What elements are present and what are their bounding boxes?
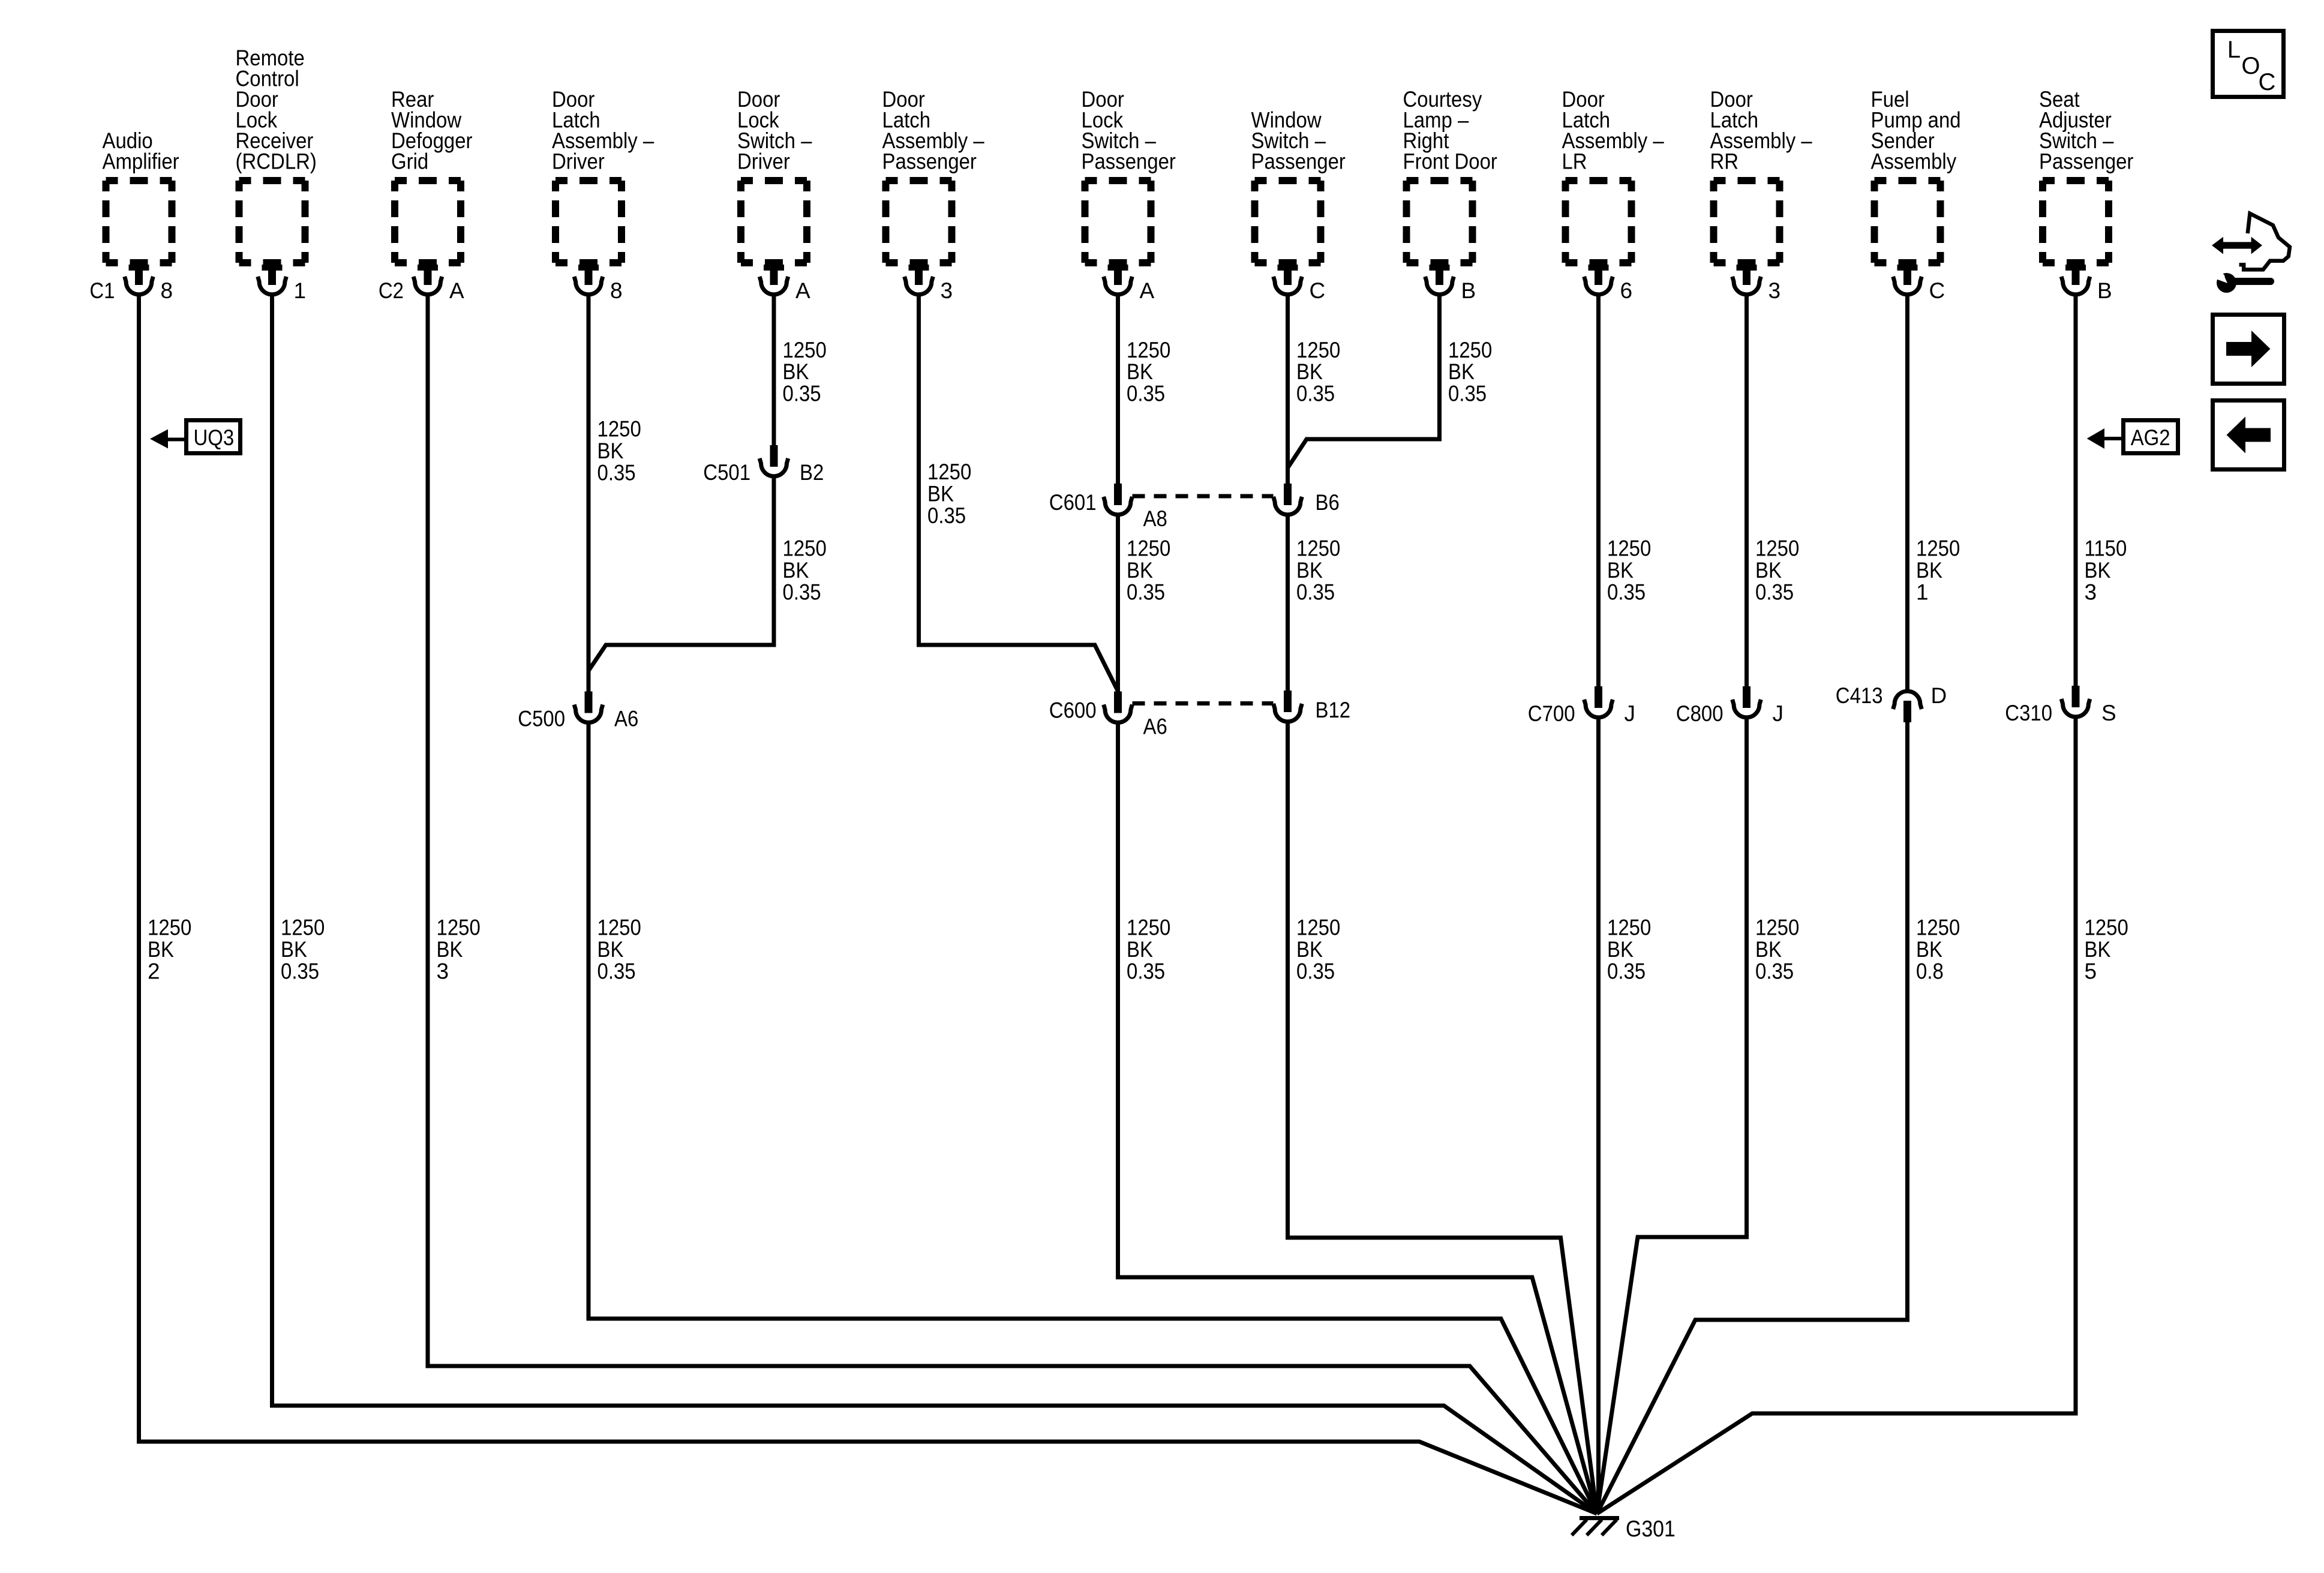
wire audio amplifier to G301 (col1): [139, 295, 1598, 1514]
connector pin C1 8 of Audio Amplifier: [89, 265, 173, 303]
connector pin 3 of Door Latch Assembly – RR: [1733, 265, 1780, 303]
svg-text:C800: C800: [1676, 701, 1724, 726]
component Seat Adjuster Switch – Passenger: [2039, 87, 2133, 263]
svg-text:0.35: 0.35: [1127, 959, 1165, 984]
svg-text:BK: BK: [597, 937, 624, 962]
wire label 1250 BK 0.8 (col12 lower): [1916, 915, 1960, 984]
svg-text:0.35: 0.35: [1607, 580, 1646, 605]
connector B6: [1274, 484, 1340, 515]
wire label 1250 BK 0.35 (col7 upper): [1127, 338, 1170, 406]
svg-text:1250: 1250: [597, 417, 641, 442]
svg-text:1250: 1250: [783, 536, 827, 561]
svg-text:0.35: 0.35: [1296, 580, 1335, 605]
svg-text:BK: BK: [1607, 558, 1634, 583]
LOC legend box: [2213, 31, 2284, 97]
svg-text:BK: BK: [2085, 558, 2111, 583]
svg-text:BK: BK: [1296, 937, 1323, 962]
svg-text:BK: BK: [927, 482, 954, 506]
svg-text:A: A: [1140, 278, 1155, 303]
wire label 1250 BK 0.35 (col5 upper): [783, 338, 827, 406]
svg-text:0.35: 0.35: [1127, 382, 1165, 406]
wire window switch passenger to B6 (col8 upper): [1286, 295, 1290, 485]
wire door latch passenger to C600 join (col6): [919, 295, 1118, 694]
wire label 1250 BK 0.35 (col8 lower): [1296, 915, 1340, 984]
svg-text:BK: BK: [1755, 558, 1782, 583]
connector pin 3 of Door Latch Assembly – Passenger: [905, 265, 953, 303]
wire label 1250 BK 0.35 (col8 upper): [1296, 338, 1340, 406]
svg-text:3: 3: [2085, 580, 2097, 605]
svg-text:C1: C1: [89, 278, 115, 303]
component Fuel Pump and Sender Assembly: [1871, 87, 1961, 263]
svg-text:0.35: 0.35: [281, 959, 319, 984]
svg-text:BK: BK: [1127, 937, 1153, 962]
svg-text:0.35: 0.35: [1607, 959, 1646, 984]
svg-text:0.35: 0.35: [597, 461, 636, 485]
wire label 1250 BK 0.35 (col6): [927, 460, 971, 528]
svg-text:0.35: 0.35: [597, 959, 636, 984]
svg-text:1250: 1250: [281, 915, 325, 940]
svg-text:L: L: [2227, 37, 2241, 63]
svg-text:O: O: [2241, 53, 2260, 79]
svg-text:A8: A8: [1143, 506, 1167, 531]
wire label 1250 BK 0.35 (col7 lower): [1127, 915, 1170, 984]
svg-text:3: 3: [941, 278, 953, 303]
svg-text:C310: C310: [2005, 701, 2052, 725]
svg-text:J: J: [1773, 701, 1784, 726]
component Remote Control Door Lock Receiver (RCDLR): [236, 46, 317, 263]
svg-text:0.35: 0.35: [1755, 580, 1794, 605]
svg-text:0.35: 0.35: [783, 382, 821, 406]
svg-text:BK: BK: [1127, 558, 1153, 583]
svg-text:C2: C2: [379, 278, 404, 303]
svg-text:1: 1: [1916, 580, 1929, 605]
svg-text:B: B: [1461, 278, 1476, 303]
svg-text:0.35: 0.35: [1755, 959, 1794, 984]
wire label 1250 BK 0.35 (col8 mid): [1296, 536, 1340, 605]
svg-text:Driver: Driver: [737, 149, 790, 174]
wire courtesy lamp to col8 join (col9): [1288, 295, 1440, 468]
connector pin C of Window Switch – Passenger: [1274, 265, 1326, 303]
wire label 1250 BK 0.35 (col10 lower): [1607, 915, 1651, 984]
svg-text:LR: LR: [1562, 149, 1587, 174]
svg-text:BK: BK: [1916, 558, 1942, 583]
connector pin B of Courtesy Lamp – Right Front Door: [1425, 265, 1476, 303]
connector C601 A8: [1049, 484, 1167, 531]
svg-text:B12: B12: [1316, 698, 1351, 722]
wire door lock switch passenger to C601 (col7 upper): [1116, 295, 1120, 485]
connector C310 S: [2005, 686, 2116, 725]
svg-text:C: C: [2259, 69, 2276, 95]
svg-text:1250: 1250: [1607, 536, 1651, 561]
svg-text:2: 2: [148, 959, 160, 984]
connector B12: [1274, 691, 1350, 722]
svg-text:Assembly: Assembly: [1871, 149, 1957, 174]
svg-text:AG2: AG2: [2131, 425, 2170, 450]
svg-text:A6: A6: [614, 707, 638, 731]
svg-text:BK: BK: [148, 937, 174, 962]
svg-text:BK: BK: [1607, 937, 1634, 962]
svg-text:8: 8: [610, 278, 623, 303]
connector C700 J: [1528, 686, 1635, 726]
svg-text:Passenger: Passenger: [1082, 149, 1176, 174]
component Door Lock Switch – Passenger: [1082, 87, 1176, 263]
dashed link C601 A8 to B6: [1133, 494, 1274, 499]
svg-text:A6: A6: [1143, 715, 1167, 739]
svg-text:B2: B2: [800, 460, 824, 485]
wire label 1250 BK 1 (col12 mid): [1916, 536, 1960, 605]
svg-text:1250: 1250: [1755, 915, 1799, 940]
svg-text:1250: 1250: [1755, 536, 1799, 561]
wire label 1250 BK 0.35 (col2 lower): [281, 915, 325, 984]
svg-text:BK: BK: [1296, 359, 1323, 384]
svg-text:1250: 1250: [1916, 536, 1960, 561]
svg-text:5: 5: [2085, 959, 2097, 984]
svg-text:B6: B6: [1316, 490, 1340, 515]
connector pin 6 of Door Latch Assembly – LR: [1584, 265, 1632, 303]
wire C500 to G301 (col4 lower): [588, 722, 1597, 1514]
svg-text:B: B: [2097, 278, 2112, 303]
svg-text:1250: 1250: [1127, 536, 1170, 561]
svg-text:C700: C700: [1528, 701, 1575, 726]
connector pin 1 of Remote Control Door Lock Receiver (RCDLR): [258, 265, 306, 303]
svg-text:UQ3: UQ3: [194, 425, 235, 450]
wire B6 to B12 (col8 mid): [1286, 515, 1290, 692]
wire RCDLR to G301 (col2): [272, 295, 1598, 1514]
component Courtesy Lamp – Right Front Door: [1403, 87, 1497, 263]
wire C310 to G301 (col13 lower): [1597, 717, 2076, 1514]
svg-text:Driver: Driver: [552, 149, 605, 174]
wire B12 to G301 (col8 lower): [1288, 722, 1598, 1514]
wire label 1250 BK 0.35 (col5 below C501): [783, 536, 827, 605]
connector pin C2 A of Rear Window Defogger Grid: [379, 265, 464, 303]
wire C501 to C500 join (col5 lower): [588, 476, 774, 694]
wire label 1250 BK 0.35 (col7 mid): [1127, 536, 1170, 605]
svg-text:Passenger: Passenger: [2039, 149, 2133, 174]
svg-text:1250: 1250: [437, 915, 481, 940]
svg-text:C: C: [1929, 278, 1945, 303]
svg-text:G301: G301: [1626, 1517, 1676, 1542]
svg-text:3: 3: [1768, 278, 1781, 303]
svg-text:BK: BK: [597, 439, 624, 463]
svg-text:BK: BK: [1448, 359, 1475, 384]
svg-text:1250: 1250: [1448, 338, 1492, 362]
svg-text:S: S: [2101, 701, 2116, 725]
wire label 1250 BK 3 (col3 lower): [437, 915, 481, 984]
component Door Latch Assembly – Driver: [552, 87, 654, 263]
svg-text:A: A: [449, 278, 464, 303]
svg-text:1250: 1250: [1127, 338, 1170, 362]
component Window Switch – Passenger: [1251, 108, 1346, 263]
svg-text:BK: BK: [437, 937, 463, 962]
svg-text:1250: 1250: [1916, 915, 1960, 940]
wire door latch driver to C500 (col4 upper): [587, 295, 591, 692]
connector pin 8 of Door Latch Assembly – Driver: [574, 265, 622, 303]
svg-text:C600: C600: [1049, 698, 1097, 723]
connector pin A of Door Lock Switch – Driver: [759, 265, 810, 303]
svg-text:BK: BK: [281, 937, 307, 962]
svg-text:J: J: [1625, 701, 1636, 726]
svg-text:0.35: 0.35: [1296, 959, 1335, 984]
connector C600 A6: [1049, 692, 1167, 739]
svg-text:1150: 1150: [2085, 536, 2127, 561]
svg-text:1: 1: [294, 278, 307, 303]
svg-text:BK: BK: [783, 558, 809, 583]
svg-text:1250: 1250: [2085, 915, 2128, 940]
wire label 1250 BK 0.35 (col9 upper): [1448, 338, 1492, 406]
svg-text:A: A: [795, 278, 810, 303]
svg-text:BK: BK: [1127, 359, 1153, 384]
svg-text:BK: BK: [783, 359, 809, 384]
svg-text:1250: 1250: [1607, 915, 1651, 940]
component Door Latch Assembly – Passenger: [882, 87, 985, 263]
wire label 1250 BK 0.35 (col4 lower): [597, 915, 641, 984]
component Rear Window Defogger Grid: [391, 87, 473, 263]
svg-text:C501: C501: [703, 460, 750, 485]
wire label 1250 BK 0.35 (col11 mid): [1755, 536, 1799, 605]
wire label 1150 BK 3 (col13 mid): [2085, 536, 2127, 605]
svg-text:1250: 1250: [1296, 915, 1340, 940]
svg-text:1250: 1250: [597, 915, 641, 940]
option arrow UQ3: [150, 421, 241, 454]
svg-text:C: C: [1310, 278, 1326, 303]
wire C413 to G301 (col12 lower): [1597, 720, 1908, 1514]
svg-text:6: 6: [1620, 278, 1633, 303]
svg-text:Amplifier: Amplifier: [103, 149, 179, 174]
wire seat adjuster switch to C310 (col13 upper): [2074, 295, 2078, 687]
svg-text:C500: C500: [518, 707, 565, 731]
connector C501 B2: [703, 445, 824, 485]
wire door latch LR to C700 (col10 upper): [1596, 295, 1601, 688]
component Door Lock Switch – Driver: [737, 87, 812, 263]
svg-text:Front Door: Front Door: [1403, 149, 1497, 174]
wire fuel pump to C413 (col12 upper): [1905, 295, 1909, 691]
option arrow AG2: [2087, 421, 2178, 454]
wire C700 to G301 (col10 lower): [1596, 718, 1601, 1514]
connector pin B of Seat Adjuster Switch – Passenger: [2061, 265, 2112, 303]
svg-text:8: 8: [161, 278, 173, 303]
svg-text:0.35: 0.35: [1127, 580, 1165, 605]
svg-text:Passenger: Passenger: [1251, 149, 1346, 174]
svg-text:C413: C413: [1836, 683, 1883, 708]
wire C601 to C600 (col7 mid): [1116, 515, 1120, 692]
wire label 1250 BK 2 (col1 lower): [148, 915, 191, 984]
svg-text:1250: 1250: [927, 460, 971, 484]
svg-text:1250: 1250: [148, 915, 191, 940]
component Door Latch Assembly – LR: [1562, 87, 1665, 263]
svg-text:D: D: [1931, 683, 1947, 708]
svg-text:BK: BK: [2085, 937, 2111, 962]
wire defogger grid to G301 (col3): [428, 295, 1597, 1514]
svg-text:1250: 1250: [1127, 915, 1170, 940]
wire label 1250 BK 0.35 (col10 mid): [1607, 536, 1651, 605]
legend arrow left box: [2213, 401, 2284, 470]
component Door Latch Assembly – RR: [1710, 87, 1813, 263]
wire door latch RR to C800 (col11 upper): [1744, 295, 1749, 688]
svg-text:1250: 1250: [1296, 536, 1340, 561]
svg-text:1250: 1250: [1296, 338, 1340, 362]
wire label 1250 BK 0.35 (col4): [597, 417, 641, 485]
wire label 1250 BK 0.35 (col11 lower): [1755, 915, 1799, 984]
svg-text:0.35: 0.35: [783, 580, 821, 605]
svg-text:C601: C601: [1049, 490, 1097, 515]
svg-text:0.35: 0.35: [1296, 382, 1335, 406]
connector C800 J: [1676, 686, 1783, 726]
ground G301: [1572, 1517, 1676, 1542]
connector pin C of Fuel Pump and Sender Assembly: [1893, 265, 1945, 303]
power flow / diagnostic icon (vehicle outline with double arrow and wrench): [2212, 214, 2290, 293]
svg-text:0.8: 0.8: [1916, 959, 1944, 984]
wire C800 to G301 (col11 lower): [1597, 718, 1747, 1514]
wire door lock switch driver to C501 (col5 upper): [772, 295, 776, 448]
svg-text:1250: 1250: [783, 338, 827, 362]
component Audio Amplifier: [103, 128, 179, 263]
connector pin A of Door Lock Switch – Passenger: [1104, 265, 1155, 303]
svg-text:0.35: 0.35: [927, 503, 966, 528]
svg-text:RR: RR: [1710, 149, 1739, 174]
legend arrow right box: [2213, 315, 2284, 384]
connector C413 D: [1836, 683, 1947, 722]
svg-text:0.35: 0.35: [1448, 382, 1487, 406]
svg-text:(RCDLR): (RCDLR): [236, 149, 317, 174]
dashed link C600 A6 to B12: [1133, 701, 1274, 706]
wire label 1250 BK 5 (col13 lower): [2085, 915, 2128, 984]
svg-text:BK: BK: [1916, 937, 1942, 962]
svg-text:3: 3: [437, 959, 449, 984]
connector C500 A6: [518, 692, 638, 731]
svg-text:BK: BK: [1296, 558, 1323, 583]
svg-text:BK: BK: [1755, 937, 1782, 962]
svg-text:Passenger: Passenger: [882, 149, 977, 174]
wire C600 to G301 (col7 lower): [1118, 722, 1598, 1514]
svg-text:Grid: Grid: [391, 149, 428, 174]
